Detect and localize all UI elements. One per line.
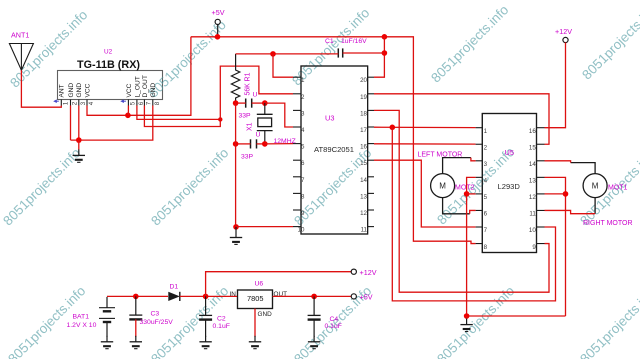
wire XTAL1 to U3 pin5: [265, 143, 293, 145]
svg-text:3: 3: [301, 110, 305, 117]
wire U5 ground drop: [466, 316, 468, 319]
IC U3 AT89C2051 body: [301, 66, 368, 234]
svg-text:C1: C1: [325, 38, 334, 45]
node +5V rail junction B: [382, 34, 388, 40]
node U3 gnd junction: [233, 224, 239, 230]
svg-text:VCC: VCC: [126, 83, 133, 97]
wire U5 pin11 to MOT1 bottom: [545, 210, 596, 213]
wire +5V to U3 pin20: [374, 37, 384, 77]
wire U3 pin16 to U5 pin2: [374, 143, 476, 145]
node U2 VCC junction: [125, 113, 131, 119]
ground U2 ground: [73, 149, 85, 162]
svg-text:12MHZ: 12MHZ: [274, 138, 296, 145]
terminal +5V bottom: [351, 294, 356, 299]
node XTAL1 junction: [262, 141, 268, 147]
svg-text:15: 15: [360, 160, 367, 167]
svg-text:14: 14: [529, 161, 536, 168]
svg-text:MOT2: MOT2: [455, 185, 475, 192]
ground C3 ground: [130, 336, 142, 349]
svg-text:D_OUT: D_OUT: [142, 75, 149, 97]
svg-text:U3: U3: [325, 114, 334, 123]
U3 pin stubs right: [368, 77, 374, 226]
capacitor C1 1uF/16V: [338, 48, 342, 57]
svg-text:1: 1: [62, 101, 69, 105]
svg-text:4: 4: [301, 127, 305, 134]
wire U2 ground drop: [78, 140, 80, 149]
svg-text:330uF/25V: 330uF/25V: [140, 319, 174, 326]
svg-text:GND: GND: [150, 83, 157, 98]
svg-text:11: 11: [529, 211, 536, 218]
U3 border restroke: [301, 66, 368, 234]
svg-text:U: U: [253, 92, 258, 99]
ground U5 ground: [460, 319, 472, 332]
svg-text:L_OUT: L_OUT: [134, 76, 141, 97]
wire diode to regulator IN: [180, 295, 238, 297]
svg-text:8: 8: [301, 193, 305, 200]
U2 pin stubs: [61, 100, 153, 106]
IC U2 TG-11B body: [58, 71, 163, 100]
wire MOT2 bottom to U5 pin6: [470, 210, 476, 213]
wire U5 pin13 gnd riser: [545, 177, 566, 316]
svg-text:3: 3: [80, 101, 87, 105]
svg-text:8: 8: [484, 244, 488, 251]
svg-text:19: 19: [360, 94, 367, 101]
node gnd rail junction: [233, 141, 239, 147]
wire gnd to U3 pin10: [236, 226, 293, 228]
terminal +12V bottom: [351, 269, 356, 274]
wire U3 pin15 to U5 pin7: [374, 160, 476, 227]
wire +12V to U5 pin16: [545, 42, 566, 127]
svg-text:L293D: L293D: [498, 182, 521, 191]
svg-text:ANT1: ANT1: [11, 31, 29, 40]
U5 pin stubs left: [476, 128, 483, 244]
svg-text:IN: IN: [230, 291, 237, 298]
capacitor C5 33P top: [246, 99, 252, 108]
U3 pin numbers: [298, 77, 368, 233]
svg-text:12: 12: [360, 210, 367, 217]
svg-text:C4: C4: [330, 316, 339, 323]
svg-text:7: 7: [301, 177, 305, 184]
capacitor C3 330uF/25V: [129, 296, 142, 319]
resistor R1 56K: [231, 54, 239, 103]
U5 pin numbers: [484, 128, 537, 251]
battery BAT1: [99, 297, 115, 337]
wire U3 pin17 to U5 pin1: [374, 126, 476, 128]
svg-text:M: M: [439, 182, 446, 191]
ground C2 ground: [199, 336, 211, 349]
wire +5V rail down to U5 pin8: [191, 37, 476, 244]
svg-text:0.1uF: 0.1uF: [213, 323, 230, 330]
ground connector: [235, 227, 237, 232]
svg-text:U2: U2: [104, 49, 113, 56]
wire U2 D_OUT to U3 pin2: [144, 66, 293, 126]
wire U2 pin5 VCC drop: [127, 106, 129, 116]
IC U5 L293D body: [482, 114, 536, 253]
wire RST net horizontal: [236, 53, 273, 55]
svg-text:C3: C3: [151, 311, 160, 318]
svg-text:7805: 7805: [247, 294, 263, 303]
node +12V junction: [203, 294, 209, 300]
svg-text:+5V: +5V: [360, 293, 373, 302]
wire RST net to C1 left: [273, 53, 338, 55]
svg-text:+12V: +12V: [555, 27, 572, 36]
svg-text:16: 16: [529, 128, 536, 135]
svg-text:14: 14: [360, 177, 367, 184]
capacitor C4 0.1uF: [308, 296, 321, 337]
svg-text:8: 8: [154, 101, 161, 105]
wire U2 GND bus to pin8: [71, 106, 153, 141]
svg-text:5: 5: [129, 101, 136, 105]
motor MOT1 right: [571, 163, 608, 214]
wire C1 right to +5V riser: [343, 52, 385, 54]
svg-text:3: 3: [484, 161, 488, 168]
svg-text:18: 18: [360, 110, 367, 117]
node +5V rail junction A: [215, 34, 221, 40]
node XTAL2 junction: [262, 100, 268, 106]
svg-text:13: 13: [360, 193, 367, 200]
svg-text:5: 5: [484, 194, 488, 201]
svg-text:0.1uF: 0.1uF: [325, 323, 342, 330]
svg-text:33P: 33P: [239, 113, 252, 120]
svg-text:56K R1: 56K R1: [245, 72, 252, 95]
svg-text:9: 9: [532, 244, 536, 251]
svg-text:GND: GND: [68, 83, 75, 98]
node C4 junction: [311, 294, 317, 300]
svg-text:2: 2: [301, 94, 305, 101]
svg-text:9: 9: [301, 210, 305, 217]
wire C3 bottom lead: [135, 319, 137, 337]
node ground row junction: [464, 313, 470, 319]
node C1 junction: [382, 50, 388, 56]
svg-text:12: 12: [529, 194, 536, 201]
U3 pin stubs left: [293, 77, 301, 226]
svg-text:U6: U6: [255, 281, 264, 288]
node pin17 junction: [390, 125, 396, 131]
wire U5 pin12 gnd: [545, 193, 566, 195]
wire gnd rail vertical: [235, 103, 237, 227]
wire antenna to U2 ANT pin: [21, 70, 61, 107]
svg-text:ANT: ANT: [59, 84, 66, 97]
node U5 right gnd junction: [563, 191, 569, 197]
svg-text:U5: U5: [505, 148, 514, 157]
wire battery to diode: [107, 295, 168, 297]
wire U5 pin4 gnd down: [467, 177, 476, 316]
terminal +5V top: [215, 19, 220, 24]
wire ground row: [467, 315, 566, 317]
U5 border restroke: [482, 114, 536, 253]
svg-text:2: 2: [72, 101, 79, 105]
capacitor C6 33P bottom: [251, 139, 257, 148]
wire regulator OUT to +5V: [273, 295, 352, 297]
wire U5 pin3 to MOT2 top: [471, 158, 476, 161]
wire U3 pin18 to U5 pin9 via bottom: [374, 110, 549, 292]
svg-text:5: 5: [301, 144, 305, 151]
svg-text:33P: 33P: [241, 154, 254, 161]
crystal top lead: [264, 103, 266, 114]
svg-text:2: 2: [484, 144, 488, 151]
wire cap bot left lead: [236, 143, 251, 145]
svg-text:C2: C2: [217, 315, 226, 322]
svg-text:16: 16: [360, 144, 367, 151]
svg-text:BAT1: BAT1: [73, 314, 90, 321]
wire XTAL2 to U3 pin4: [265, 103, 293, 127]
svg-text:1: 1: [301, 77, 305, 84]
svg-text:7: 7: [484, 227, 488, 234]
wire cap top left lead: [236, 102, 246, 104]
svg-text:RIGHT MOTOR: RIGHT MOTOR: [583, 220, 633, 227]
svg-text:17: 17: [360, 127, 367, 134]
U2 pin numbers 1-8: [53, 99, 161, 105]
svg-text:+5V: +5V: [212, 8, 225, 17]
node RST junction: [270, 51, 276, 57]
wire U3 pin19 to U5 pin15: [374, 94, 549, 144]
ground battery ground: [101, 336, 113, 349]
wire RST to U3 pin1: [273, 54, 293, 77]
diode D1: [168, 292, 180, 301]
wire regulator ground lead: [254, 309, 256, 338]
svg-text:20: 20: [360, 77, 367, 84]
ground C4 ground: [308, 336, 320, 349]
node R1 bottom junction: [233, 100, 239, 106]
U5 pin stubs right: [537, 128, 545, 244]
svg-text:MOT1: MOT1: [608, 185, 628, 192]
wire U5 pin14 to MOT1 top: [545, 161, 571, 163]
ground crystal/U3 ground: [230, 232, 242, 245]
svg-text:6: 6: [301, 160, 305, 167]
wire +12V rail bottom: [206, 272, 352, 297]
svg-text:13: 13: [529, 178, 536, 185]
node C3 junction: [133, 294, 139, 300]
svg-text:TG-11B (RX): TG-11B (RX): [77, 59, 140, 71]
wire U2 VCC to +5V rail: [87, 37, 191, 116]
crystal X1 12MHZ: [257, 114, 273, 130]
wire U2 pin2 GND down: [70, 106, 72, 141]
svg-text:VCC: VCC: [84, 83, 91, 97]
svg-text:M: M: [592, 182, 599, 191]
svg-text:10: 10: [529, 227, 536, 234]
regulator U6 7805 body: [238, 290, 273, 309]
wire pin17 branch to U5 pin10 via bottom: [392, 127, 555, 301]
wire U2 L_OUT join: [137, 106, 220, 120]
svg-text:1uF/16V: 1uF/16V: [341, 38, 367, 45]
svg-text:4: 4: [88, 101, 95, 105]
wire +5V terminal drop: [217, 24, 219, 36]
terminal +12V top: [563, 37, 568, 42]
svg-text:+12V: +12V: [360, 268, 377, 277]
node U2 ground junction: [76, 137, 82, 143]
wire U2 pin3 GND down: [78, 106, 80, 141]
svg-text:1.2V X 10: 1.2V X 10: [67, 322, 97, 329]
svg-text:X1: X1: [247, 122, 254, 131]
svg-text:4: 4: [484, 178, 488, 185]
svg-text:10: 10: [298, 227, 305, 234]
U2 pin names: [59, 75, 158, 97]
crystal bottom lead: [264, 131, 266, 144]
node L_OUT junction: [218, 117, 222, 121]
svg-text:GND: GND: [258, 311, 273, 318]
svg-text:AT89C2051: AT89C2051: [314, 145, 354, 154]
svg-text:LEFT MOTOR: LEFT MOTOR: [418, 152, 463, 159]
svg-text:1: 1: [484, 128, 488, 135]
svg-text:6: 6: [484, 211, 488, 218]
capacitor C2 0.1uF: [199, 296, 212, 337]
wire U5 pin5 gnd: [467, 193, 476, 195]
svg-text:11: 11: [361, 227, 368, 234]
antenna ANT1: [9, 44, 33, 71]
wire cap bot right lead: [257, 143, 265, 145]
U6 border restroke: [238, 290, 273, 309]
svg-text:U: U: [256, 132, 261, 139]
svg-text:6: 6: [138, 101, 145, 105]
node U5 left gnd junction: [464, 191, 470, 197]
svg-text:D1: D1: [170, 283, 179, 290]
motor MOT2 left: [431, 158, 471, 214]
svg-text:GND: GND: [76, 83, 83, 98]
svg-text:15: 15: [529, 144, 536, 151]
ground regulator ground: [249, 336, 261, 349]
wire cap top right lead: [252, 102, 265, 104]
svg-text:7: 7: [145, 101, 152, 105]
